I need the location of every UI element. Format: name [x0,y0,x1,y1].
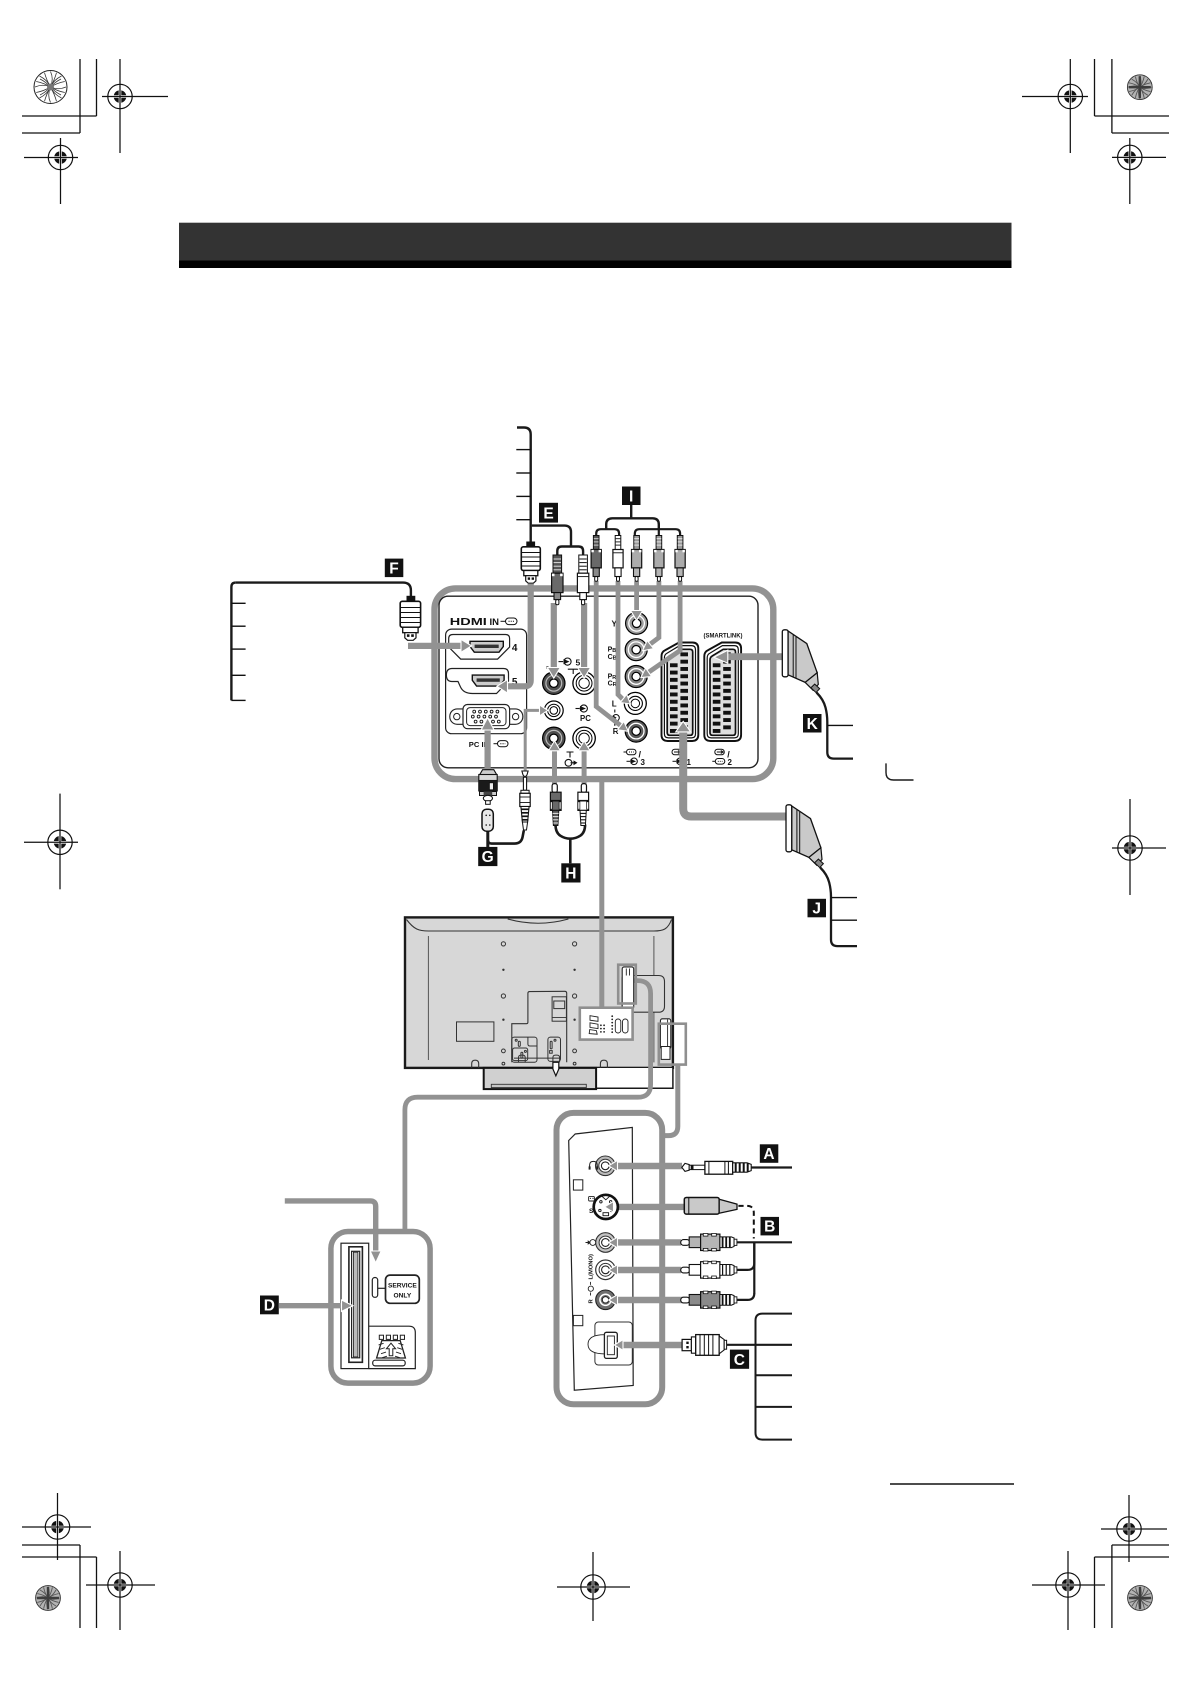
cable I stem and brackets [630,505,632,518]
C bracket [756,1314,793,1440]
label A [760,1144,779,1163]
svg-text:I: I [629,488,633,505]
wire B s-video bar [614,1204,685,1210]
svg-text:2: 2 [728,758,733,767]
svg-text:K: K [807,716,819,733]
headphone jack [596,1156,616,1176]
SCART 1 icons [672,749,692,767]
arrow into Y jack [631,611,643,621]
label J [808,899,827,918]
svg-text:PC: PC [580,714,591,723]
wire G VGA gray [485,729,491,771]
SERVICE ONLY box [386,1275,420,1303]
label E [539,503,558,523]
wire D arrow [279,1303,342,1308]
arrow into audio R jack [609,1295,618,1306]
wire H dark to audio out dark [552,750,557,785]
audio LR rotated label [588,1254,595,1304]
svg-text:1: 1 [687,758,692,767]
cable E branch to RCA pair [532,526,571,547]
connector B s-video plug [684,1198,737,1215]
wire video5 gray [551,603,557,669]
wire I-1 to R jack [596,581,621,726]
arrow into PC audio jack [540,705,549,716]
wire G minijack path [525,710,541,770]
TV link cable from panel to TV [599,777,604,1008]
side housing rounded rect [622,976,664,1013]
svg-text:HDMI: HDMI [450,616,487,628]
svg-text:CB: CB [608,654,617,662]
SCART 1 connector [662,643,699,742]
svg-text:4: 4 [512,643,518,654]
audio out jack (white) [573,727,595,749]
wire I-2 to L jack [618,581,623,699]
label I [622,487,641,506]
eject arrow glyph [386,1343,395,1356]
arrow into HDMI port [614,1340,623,1351]
connector I plug 2 (white) [613,536,623,582]
arrow into Pr jack [641,668,652,678]
HDMI IN icon [501,618,518,625]
connector G minijack [520,771,530,830]
svg-text:L: L [612,699,617,708]
eject tray base [373,1360,406,1366]
connector H RCA dark plug [550,784,561,826]
audio out icon [565,759,577,766]
panel small square bottom [573,1315,582,1325]
corner mark near K [886,763,914,780]
label F [385,559,404,578]
connector E RCA dark plug [552,555,563,605]
connector I plug 3 (gray) [632,536,642,582]
TV bottom-right notch [595,1068,673,1088]
PC audio jack [544,701,563,720]
white arrow marker below mount [553,1062,559,1076]
panel small square top [573,1180,582,1190]
rear AV panel callout box [435,588,774,779]
cable from side connector to side panel callout [663,1065,678,1136]
wire I-5 to Pr jack [648,581,681,673]
video in 5 jack (dark) [543,672,565,694]
module cable into D panel [285,1201,376,1252]
cable F black [236,583,411,597]
TV screw holes [501,942,576,1065]
connector E HDMI plug [521,542,540,584]
wire I-4 to Pb jack [649,581,659,645]
arrow into audio out dark [549,741,561,751]
side connector highlight box [659,1024,686,1065]
label B [761,1217,780,1236]
Pr jack [625,666,647,688]
svg-text:B: B [764,1219,775,1236]
TV link cable over TV [599,916,604,1008]
connector F HDMI plug [400,596,420,641]
svg-text:L(MONO): L(MONO) [589,1254,595,1280]
svg-text:F: F [389,560,398,577]
TV bottom hooks [472,1060,479,1068]
svg-text:IN: IN [490,617,500,628]
audio in 5 jack (white) [573,672,595,694]
AV connectors box [580,1008,633,1040]
ground icon [567,752,574,758]
cable from service slot to D panel [405,981,651,1229]
PC label icon [576,705,592,723]
arrow into HDMI 4 [461,639,472,652]
rear AV panel inner plate [439,596,758,768]
cable E tick marks [516,450,530,520]
connector I plug 1 (dark) [591,536,601,582]
HDMI port 5 [446,669,518,694]
connector B audio R plug (dark) [681,1291,737,1309]
svg-text:3: 3 [641,758,646,767]
TV back cover edge lines [427,936,429,1060]
wire B audio L bar [618,1267,681,1273]
connector H RCA white plug [578,784,589,826]
svg-text:SERVICE: SERVICE [388,1282,417,1289]
svg-text:H: H [565,866,576,883]
wire E gray path to HDMI 5 [505,584,531,686]
svg-text:E: E [543,505,553,522]
eject area outline [369,1326,416,1368]
arrow into video5 jack [547,668,560,679]
TV mount bottom rail [514,1055,560,1062]
svg-text:5: 5 [576,657,581,667]
Y jack [626,612,648,634]
side connector drawing [660,1019,670,1049]
svg-text:G: G [482,849,494,866]
slot plate [341,1243,369,1368]
arrow into Pb jack [643,641,654,651]
SCART 2 icons [712,749,732,767]
wire A bar [618,1163,682,1169]
TV rear body [405,917,673,1068]
wire B video bar [618,1239,681,1245]
svg-text:CR: CR [608,681,617,689]
TV mount right bracket [548,1037,561,1061]
wire C bar [622,1342,682,1348]
ferrite bead G [482,809,493,831]
TV mount inner box [552,997,566,1021]
arrow into audio out white [578,741,590,751]
cable B audio L [737,1242,754,1270]
arrow into R jack [618,721,629,731]
dashed cable B [738,1206,753,1239]
eject tray trapezoid [377,1341,406,1358]
AV3 icons [624,749,646,767]
label D [260,1296,279,1315]
TV handle notch [508,919,569,923]
side panel callout box [557,1113,663,1404]
label H [561,863,580,882]
audio R jack [625,720,647,742]
arrow into L jack [620,694,630,704]
TV stand [484,1068,596,1089]
label K [803,714,822,733]
AV box icons [589,1016,628,1034]
arrow into VGA [481,718,494,730]
HDMI side port [604,1332,617,1358]
TV mount left bracket [512,1037,537,1062]
connector K SCART plug [782,630,819,693]
cable G black [486,831,489,847]
cable H black [556,825,586,839]
TV label plate [457,1022,494,1041]
header bar [179,223,1012,261]
arrow into s-video jack [605,1202,614,1213]
cable K black [817,693,854,759]
s-video jack [594,1195,618,1219]
wire I-3 to Y jack [634,581,639,612]
wire audio5 gray [581,603,587,669]
audio L jack [596,1260,616,1280]
service slot highlight box [618,965,636,1004]
svg-text:(SMARTLINK): (SMARTLINK) [704,632,743,639]
connector C HDMI plug [682,1335,727,1356]
HDMI recess [595,1322,632,1365]
svg-text:A: A [763,1146,774,1163]
B bracket vertical [753,1242,755,1293]
D callout box [331,1232,430,1384]
TV top edge curves [407,920,672,932]
HDMI port 4 [449,635,518,660]
connector A minijack plug [682,1161,751,1174]
CAM slot [349,1247,363,1363]
arrow into HDMI 5 [497,680,508,694]
connector E RCA white plug [577,555,588,605]
label G [478,847,497,866]
cable J black [820,868,857,947]
svg-text:D: D [264,1298,275,1315]
wire F gray to HDMI 4 [408,643,462,649]
cable A [751,1166,792,1168]
arrow into audio L jack [609,1265,618,1276]
audio R jack [596,1290,616,1310]
video icon [586,1240,596,1246]
arrow into audio5 jack [578,668,591,679]
cable F tick marks [231,603,245,700]
slot button [372,1278,377,1298]
svg-text:ONLY: ONLY [394,1293,412,1300]
arrow into SCART 1 [676,721,691,732]
wire K from SCART2 to K plug [728,653,784,660]
audio LR icon [613,710,620,726]
video jack [596,1233,616,1253]
HDMI group box [446,629,527,734]
connector J SCART plug [786,805,823,868]
arrow into headphone jack [609,1160,618,1171]
VGA connector PC IN [450,705,523,729]
side panel face [569,1127,634,1390]
service slot drawing [622,967,634,1009]
connector B video plug (gray) [681,1234,737,1252]
arrow down inside D panel [370,1251,381,1263]
arrow into video jack [609,1237,618,1248]
svg-text:J: J [812,901,821,918]
cable E black [517,428,531,544]
Pb jack [625,639,647,661]
wire H white to audio out white [582,750,587,785]
eject icon squares [379,1335,404,1339]
TV mount outline [512,991,567,1062]
cable B audio R [737,1293,754,1300]
headphone icon [589,1161,599,1169]
wire J from SCART1 down to J plug [683,731,786,817]
svg-text:R: R [613,727,619,736]
connector G VGA plug [478,770,498,805]
wire B audio R bar [618,1297,685,1303]
connector B audio L plug (white) [681,1261,737,1279]
connector I plug 4 (gray) [654,536,664,582]
SCART 2 connector (SMARTLINK) [704,643,741,742]
video in 5 icon label [559,657,583,674]
arrow into SCART 2 [714,650,728,663]
cable C [727,1344,792,1346]
cable B video [737,1241,792,1243]
connector I plug 5 (gray) [675,536,685,582]
audio L jack [624,692,646,714]
label C [730,1350,749,1369]
s-video icon [589,1196,595,1214]
svg-text:C: C [734,1352,745,1369]
audio out jack (dark) [543,727,565,749]
svg-text:S: S [589,1208,594,1215]
